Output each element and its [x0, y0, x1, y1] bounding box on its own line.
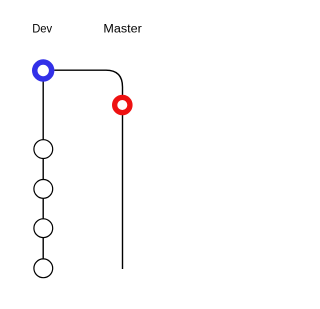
svg-text:Dev: Dev — [32, 24, 52, 36]
svg-text:Master: Master — [103, 24, 142, 36]
